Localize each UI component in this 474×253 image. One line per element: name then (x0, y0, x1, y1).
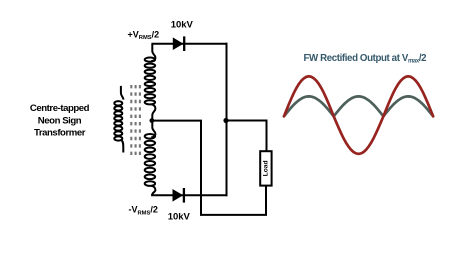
svg-text:10kV: 10kV (171, 20, 194, 31)
label: Centre-tapped Neon Sign Transformer (30, 103, 90, 139)
wire: secondary top lead to diode D1 and right rail corner (151, 43, 227, 45)
svg-text:Transformer: Transformer (34, 128, 86, 139)
waveform: rectified output (grey-teal) (284, 96, 433, 116)
svg-text:FW Rectified Output at Vmax/2: FW Rectified Output at Vmax/2 (304, 53, 427, 65)
wire: centre tap to bottom return rail (152, 121, 201, 215)
diode D2 (bottom, 10kV) (173, 188, 184, 203)
resistor: Load (260, 151, 271, 185)
svg-text:Load: Load (262, 161, 269, 177)
svg-text:+VRMS/2: +VRMS/2 (128, 30, 160, 42)
junction: right rail to load feed (223, 118, 228, 123)
waveform: input sine (red) (284, 76, 433, 154)
svg-text:Neon Sign: Neon Sign (38, 115, 82, 126)
svg-text:Centre-tapped: Centre-tapped (30, 103, 90, 114)
wire: right rail vertical (226, 43, 228, 197)
wire: bottom return to load bottom (200, 185, 266, 215)
transformer primary winding P1 (114, 86, 123, 153)
wire: junction to load top (227, 121, 267, 152)
transformer secondary winding S2 (bottom half) (145, 121, 156, 195)
transformer secondary winding S1 (top half) (145, 44, 156, 120)
junction: centre tap at coil (150, 118, 155, 123)
svg-text:10kV: 10kV (168, 212, 191, 223)
diode D1 (top, 10kV) (173, 36, 184, 51)
wire: bottom diode D2 output row (151, 194, 227, 196)
svg-text:-VRMS/2: -VRMS/2 (129, 205, 158, 217)
transformer core (laminated, dashed) (131, 85, 140, 156)
